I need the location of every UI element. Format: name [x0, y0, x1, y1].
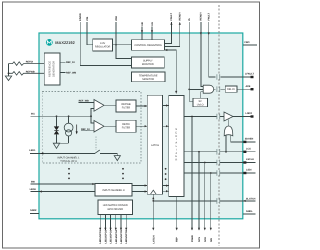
svg-text:LSCLK: LSCLK — [246, 158, 254, 161]
wire SCLK — [184, 162, 256, 164]
latch clock triangle — [150, 190, 156, 194]
svg-text:LCS: LCS — [246, 147, 251, 150]
svg-text:LED MATRIX DRIVER: LED MATRIX DRIVER — [103, 204, 128, 207]
svg-text:VL: VL — [188, 17, 191, 21]
svg-text:LED4/GPO4: LED4/GPO4 — [115, 229, 118, 243]
wire CS to gate — [225, 135, 227, 152]
svg-text:TYPICAL OF 8: TYPICAL OF 8 — [60, 160, 77, 163]
3.3V regulator — [93, 39, 113, 51]
svg-text:LED5/GPO5: LED5/GPO5 — [120, 229, 123, 243]
net REF_DI stub — [60, 61, 65, 63]
svg-text:SCK: SCK — [204, 237, 207, 242]
svg-text:LATCH: LATCH — [151, 144, 159, 147]
svg-text:GNDF: GNDF — [30, 209, 37, 212]
svg-text:24VDD: 24VDD — [79, 13, 82, 21]
temperature monitor — [132, 72, 165, 82]
svg-text:PGND: PGND — [191, 235, 194, 242]
test drop SCLK — [204, 163, 206, 231]
svg-text:LSDO: LSDO — [246, 112, 253, 115]
ellipsis channels — [68, 168, 70, 170]
svg-text:FAULT: FAULT — [170, 12, 173, 20]
IC body MAX22192 — [39, 33, 243, 219]
svg-text:MONITOR: MONITOR — [142, 63, 154, 66]
svg-text:REF_WB: REF_WB — [66, 72, 76, 75]
serializer block — [169, 96, 184, 197]
svg-text:UVLO: UVLO — [197, 103, 204, 106]
svg-text:REGULATOR: REGULATOR — [95, 46, 111, 49]
svg-text:LFAULT: LFAULT — [245, 73, 255, 76]
svg-text:IN8: IN8 — [31, 181, 35, 184]
wire M0 — [141, 27, 143, 40]
control registers — [132, 40, 165, 51]
svg-text:LATCH: LATCH — [152, 235, 155, 243]
svg-text:SCS: SCS — [198, 237, 201, 242]
current source (wetting current) — [68, 116, 70, 123]
wire 24VDD — [80, 22, 131, 66]
svg-text:REFDI: REFDI — [26, 61, 34, 64]
svg-text:IN1: IN1 — [31, 113, 35, 116]
ground — [5, 76, 11, 81]
OR gate sdo enable — [224, 126, 233, 136]
REFWB filter — [116, 100, 136, 112]
wire VL branch to AND — [189, 88, 203, 90]
border frame — [3, 2, 260, 248]
svg-text:REFERENCE: REFERENCE — [49, 61, 52, 77]
pin FBO (top right) — [243, 44, 257, 46]
wire READY riser — [165, 22, 180, 47]
wire IN8 — [31, 183, 96, 185]
svg-text:READY: READY — [200, 12, 203, 21]
wire to supply monitor — [116, 45, 132, 59]
svg-text:FBO: FBO — [245, 41, 250, 44]
net REF_WB to comparator — [79, 102, 94, 104]
wire AND out — [214, 88, 216, 90]
wire V24 to regulator — [87, 22, 93, 45]
switch to ground — [95, 137, 97, 151]
supply monitor — [132, 57, 165, 68]
svg-text:LED2/GPO2: LED2/GPO2 — [104, 229, 107, 243]
wire M1 — [151, 27, 153, 40]
TVS diode — [56, 116, 58, 126]
svg-text:VDD: VDD — [115, 16, 118, 21]
svg-text:FILTER: FILTER — [122, 127, 131, 130]
wire SDI — [184, 172, 256, 174]
wire VL — [189, 22, 193, 101]
REFDI filter — [116, 120, 136, 132]
LED/GPO pins — [99, 215, 128, 244]
drop FBP — [176, 197, 178, 230]
iso channel SDO — [217, 115, 220, 118]
wire comparator out — [104, 104, 116, 106]
wire 3.3V rail — [113, 44, 132, 46]
svg-text:REF_DI: REF_DI — [66, 61, 75, 64]
bus control-serializer — [165, 50, 177, 94]
iso channel DELAY — [217, 88, 220, 91]
wire latch clock — [152, 194, 154, 230]
wire SLATCH — [153, 200, 255, 202]
buffer SDO — [224, 112, 233, 121]
svg-text:INPUT CHANNEL 8: INPUT CHANNEL 8 — [102, 189, 125, 192]
comparator WB — [94, 100, 104, 112]
ground (channel) — [53, 143, 59, 148]
wire CS — [184, 151, 256, 153]
wires latch to serializer — [163, 105, 169, 107]
wire left junction — [8, 64, 10, 76]
wire enable — [227, 119, 229, 126]
resistor R-REFWB — [9, 72, 45, 76]
svg-text:FAULT: FAULT — [208, 12, 211, 20]
LED matrix driver — [98, 200, 133, 215]
wire IN branch down — [91, 116, 94, 123]
svg-text:FILTER: FILTER — [122, 106, 131, 109]
svg-text:SDOEN: SDOEN — [245, 138, 254, 141]
wire filter to latch — [136, 125, 147, 127]
iso channel FAULT — [217, 76, 220, 79]
svg-text:V24: V24 — [86, 16, 89, 21]
svg-text:LED3/GPO3: LED3/GPO3 — [110, 229, 113, 243]
svg-text:CONTROL REGISTERS: CONTROL REGISTERS — [134, 44, 162, 47]
wire filter to latch — [136, 105, 147, 107]
5V UVLO — [193, 98, 208, 107]
input channel 1 dashed box — [42, 91, 141, 163]
svg-text:MAX22192: MAX22192 — [55, 40, 75, 45]
wire SDOEN — [231, 135, 256, 142]
svg-text:LSDI: LSDI — [246, 169, 252, 172]
svg-text:AFB: AFB — [246, 85, 251, 88]
svg-text:REFWB: REFWB — [26, 70, 35, 73]
AND gate fault — [203, 85, 214, 93]
test drop SDI — [210, 173, 212, 230]
svg-text:GNDL: GNDL — [246, 210, 253, 213]
wire to AFB pin — [237, 88, 251, 90]
svg-text:REF_WB: REF_WB — [79, 99, 89, 102]
wires ch8 to latch — [132, 185, 147, 187]
svg-text:FBP: FBP — [176, 237, 179, 242]
maxim logo — [46, 39, 53, 46]
svg-text:READY: READY — [179, 12, 182, 21]
comparator DI — [94, 121, 104, 133]
input channel 8 — [95, 184, 132, 197]
wire LED8 — [31, 191, 96, 193]
svg-text:REF_DI: REF_DI — [81, 128, 90, 131]
svg-text:SDI: SDI — [210, 238, 213, 242]
resistor R-REFDI — [9, 62, 45, 66]
wire IN branch up — [91, 109, 94, 117]
reference generator U-REF — [44, 53, 60, 85]
isolation barrier (dashed) — [218, 5, 220, 246]
svg-text:LED6/GPO6: LED6/GPO6 — [125, 229, 128, 243]
svg-text:LED1: LED1 — [29, 149, 36, 152]
delay block — [225, 86, 237, 92]
wire to LFAULT pin — [221, 76, 251, 78]
svg-text:GENERATOR: GENERATOR — [53, 61, 56, 77]
svg-text:GPO DRIVER: GPO DRIVER — [107, 208, 123, 211]
wire IN1 — [31, 115, 92, 117]
svg-text:LED1/GPO1: LED1/GPO1 — [99, 229, 102, 243]
net REF_DI to comparator — [81, 130, 94, 132]
ground (switch) — [114, 156, 120, 161]
svg-text:SLATCH: SLATCH — [246, 197, 256, 200]
wire comparator out — [104, 125, 116, 127]
svg-text:DELAY: DELAY — [227, 88, 235, 91]
wire READY2 — [201, 22, 203, 86]
wire UVLO to AND — [201, 92, 204, 98]
latch block — [147, 95, 162, 194]
wire FAULT riser — [165, 22, 172, 43]
svg-text:LED8: LED8 — [30, 188, 37, 191]
svg-text:MONITOR: MONITOR — [142, 78, 154, 81]
drop PGND — [191, 117, 193, 231]
test drop CS — [198, 152, 200, 230]
wire FAULT2 — [209, 22, 216, 77]
wire SDO — [184, 116, 224, 118]
wire join — [57, 142, 69, 144]
junction — [8, 72, 10, 74]
net REF_WB stub — [60, 72, 65, 74]
wire VDD — [115, 22, 117, 45]
